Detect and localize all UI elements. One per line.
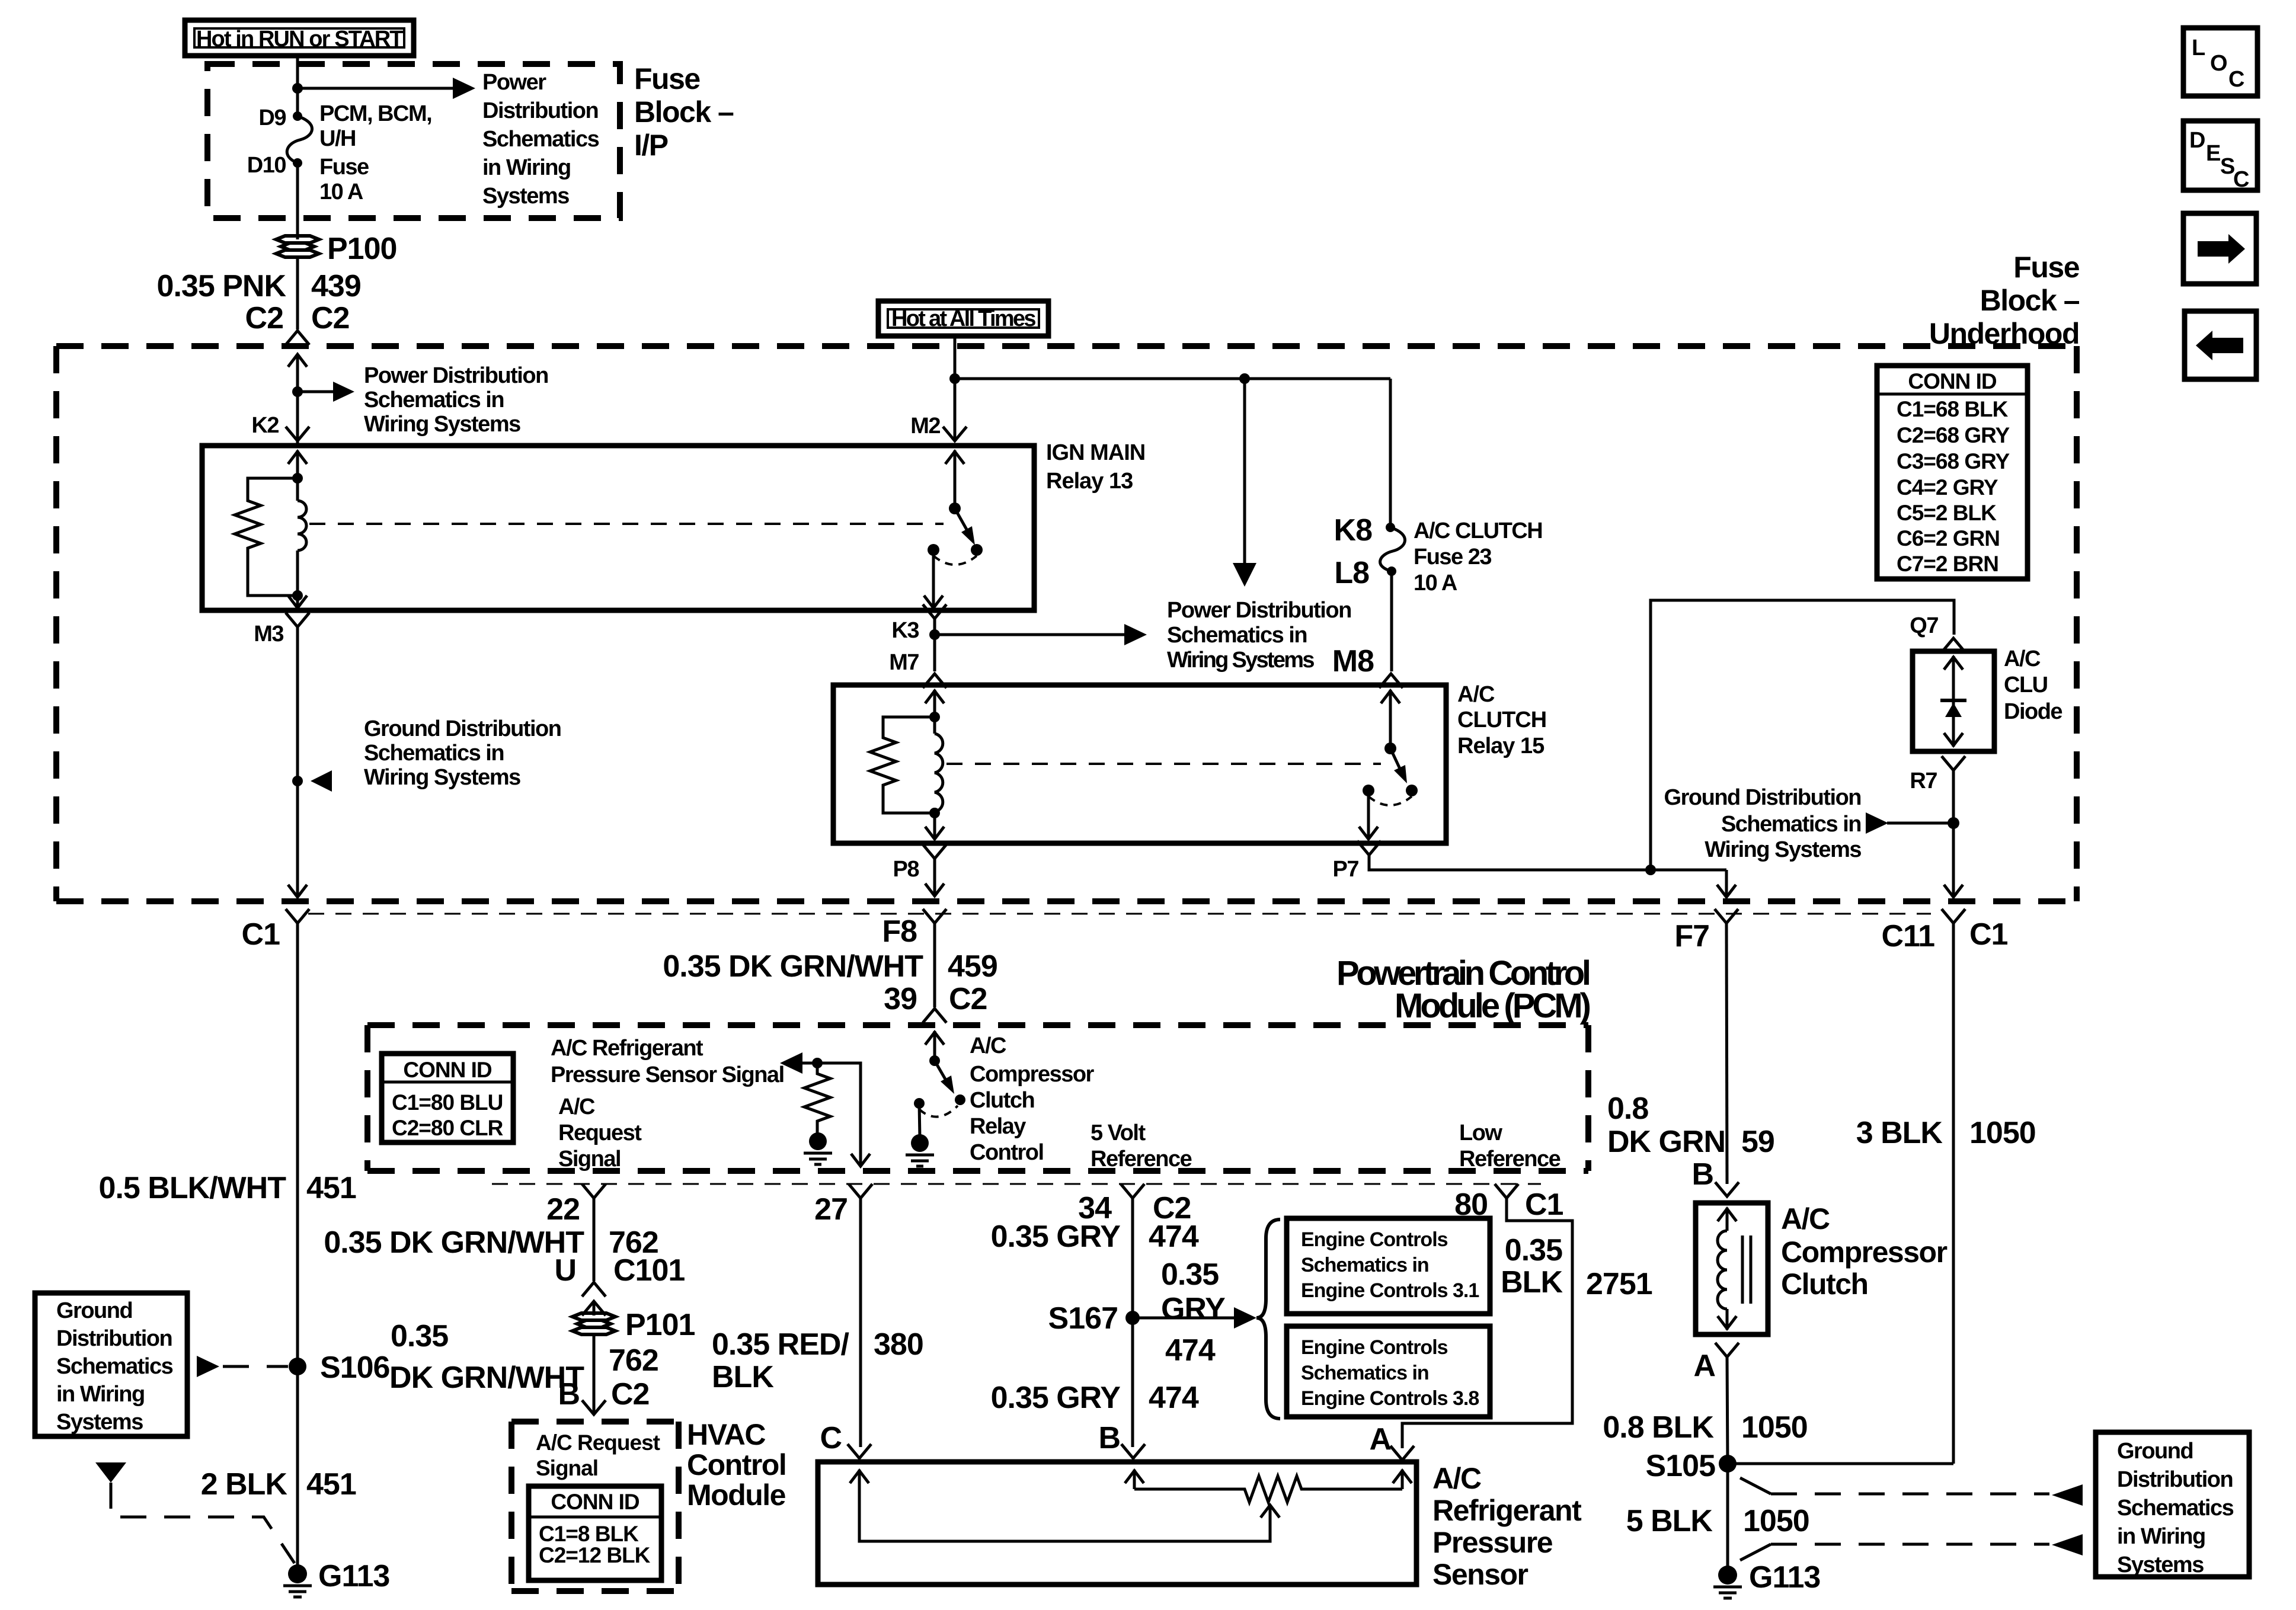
node junction on K2 wire: [292, 386, 303, 397]
CONN ID table underhood: [1877, 366, 2028, 579]
svg-text:U/H: U/H: [319, 126, 356, 151]
svg-text:451: 451: [306, 1467, 356, 1502]
relay 15 linkage dashed line: [946, 763, 1381, 765]
diode symbol with arrows: [1940, 656, 1966, 747]
node coil top junction: [292, 473, 303, 484]
svg-text:K3: K3: [891, 618, 919, 643]
labels C11 C1: [1881, 917, 2007, 953]
connector chevron pin 80: [1495, 1184, 1518, 1198]
component box A/C CLU Diode: [1913, 651, 1994, 751]
arrow down to pin 27: [851, 1154, 870, 1166]
svg-text:Wiring Systems: Wiring Systems: [1705, 837, 1861, 862]
CONN ID table PCM: [382, 1054, 513, 1142]
arrow down at C11 exit: [1944, 885, 1963, 897]
arrow to Power Distribution reference (K3): [935, 624, 1147, 645]
svg-text:474: 474: [1149, 1219, 1199, 1254]
relay 13 coil input arrow: [288, 450, 307, 478]
arrow to Power Distribution reference (underhood top): [298, 382, 354, 402]
connector chevron compressor B: [1715, 1182, 1739, 1196]
relay 13 switch output arrow to K3: [924, 550, 943, 608]
relay 15 switch pivot: [1384, 742, 1396, 754]
svg-text:C: C: [2233, 167, 2249, 192]
svg-text:BLK: BLK: [1501, 1265, 1563, 1299]
Hot at All Times header box: [878, 301, 1048, 336]
svg-text:B: B: [1098, 1421, 1120, 1455]
svg-text:Engine Controls 3.1: Engine Controls 3.1: [1301, 1279, 1479, 1302]
svg-text:A/C Request: A/C Request: [536, 1430, 660, 1455]
PCM switch pivot: [929, 1055, 940, 1066]
svg-text:D10: D10: [247, 153, 286, 178]
label 0.35 GRY 474 (lower): [991, 1381, 1199, 1415]
relay 13 switch input from M2: [945, 450, 964, 508]
svg-text:27: 27: [814, 1192, 848, 1227]
svg-text:0.35: 0.35: [391, 1319, 448, 1353]
label 0.35 DK GRN/WHT 762 (above C101): [324, 1225, 658, 1260]
wire K2 entry into underhood box: [296, 356, 299, 446]
label A/C Compressor Clutch Relay Control: [970, 1033, 1095, 1165]
svg-text:Ground: Ground: [56, 1298, 132, 1323]
svg-text:1050: 1050: [1743, 1504, 1809, 1538]
svg-text:451: 451: [306, 1171, 356, 1205]
svg-text:C7=2 BRN: C7=2 BRN: [1897, 552, 1998, 576]
fuse 23 terminal L8: [1387, 566, 1396, 576]
text A/C Request Signal (PCM): [558, 1094, 642, 1172]
dashed ground reference wire 2: [1740, 1534, 2083, 1560]
svg-text:C1: C1: [1969, 917, 2008, 952]
label Fuse Block Underhood: [1929, 251, 2080, 350]
label A/C CLUTCH Fuse 23 10 A: [1414, 518, 1542, 596]
svg-text:Ground: Ground: [2117, 1439, 2193, 1464]
svg-text:DK GRN/WHT: DK GRN/WHT: [389, 1361, 584, 1395]
svg-text:P8: P8: [893, 857, 919, 882]
wire S105 to C1 ground leg: [1728, 1462, 1953, 1465]
splice S167: [1125, 1311, 1140, 1325]
text Power Distribution Schematics in Wiring Systems (center): [1167, 598, 1351, 673]
svg-text:F7: F7: [1674, 919, 1709, 953]
fuse element PCM BCM U/H Fuse 10A: [287, 116, 312, 163]
node ground distribution tap on M3 wire: [292, 776, 303, 786]
text A/C Refrigerant Pressure Sensor Signal: [551, 1036, 784, 1087]
node branch to power distribution arrow: [1239, 373, 1250, 384]
arrow down at C1 exit: [288, 885, 307, 897]
svg-text:C2: C2: [611, 1377, 649, 1411]
text Low Reference: [1459, 1121, 1560, 1172]
text Power Distribution Schematics in Wiring Systems (I/P): [482, 70, 599, 209]
svg-text:Wiring Systems: Wiring Systems: [364, 412, 520, 437]
svg-text:Compressor: Compressor: [970, 1062, 1095, 1087]
node: junction dot in fuse block I/P: [292, 83, 303, 94]
label 39 C2: [884, 982, 987, 1016]
wire C1 left down to G113: [296, 923, 299, 1567]
svg-text:Engine Controls: Engine Controls: [1301, 1336, 1448, 1359]
svg-text:C2: C2: [245, 301, 283, 335]
arrow down at F7 exit: [1717, 870, 1736, 897]
wire up to diode feed: [1651, 600, 1954, 870]
connector chevron pin 22: [582, 1184, 606, 1198]
grommet P100: [276, 232, 396, 266]
connector chevron M3: [286, 613, 309, 627]
label 2 BLK 451: [201, 1467, 356, 1502]
svg-text:0.35 GRY: 0.35 GRY: [991, 1381, 1121, 1415]
sensor pin A arrow: [1393, 1470, 1412, 1489]
svg-text:GRY: GRY: [1161, 1292, 1225, 1326]
svg-text:E: E: [2206, 141, 2220, 166]
wire C101 to P101: [593, 1301, 596, 1315]
svg-text:F8: F8: [882, 914, 917, 949]
"Hot in RUN or START" header box: [185, 20, 414, 56]
connector chevron R7: [1942, 756, 1965, 770]
svg-text:Block –: Block –: [1980, 284, 2080, 317]
thin dashed connector line below PCM: [492, 1183, 1541, 1185]
arrow down P8 exit from relay 15: [923, 844, 946, 896]
relay 13 coil output arrow: [288, 596, 307, 608]
svg-text:Refrigerant: Refrigerant: [1432, 1494, 1582, 1527]
svg-text:474: 474: [1149, 1381, 1199, 1415]
connector chevron PCM 39 entry: [923, 1009, 946, 1023]
connector chevron compressor A: [1715, 1343, 1739, 1357]
resistor in relay 15 (parallel with coil): [870, 717, 935, 813]
ground G113 (right): [1713, 1560, 1820, 1598]
connector chevron Q7: [1942, 638, 1965, 652]
svg-text:0.35 PNK: 0.35 PNK: [157, 269, 287, 303]
connector chevron C1: [286, 909, 309, 923]
svg-text:380: 380: [874, 1327, 923, 1362]
svg-text:Schematics in: Schematics in: [1301, 1362, 1429, 1384]
svg-text:S167: S167: [1048, 1301, 1118, 1336]
svg-text:C11: C11: [1881, 919, 1934, 953]
svg-text:Relay: Relay: [970, 1114, 1026, 1139]
svg-text:Fuse 23: Fuse 23: [1414, 545, 1491, 569]
svg-text:Clutch: Clutch: [970, 1088, 1034, 1113]
wire pin 27 down to sensor C: [859, 1198, 862, 1447]
svg-text:D9: D9: [258, 105, 286, 130]
node ground distribution tap on diode wire: [1948, 817, 1959, 829]
svg-text:C2: C2: [949, 982, 987, 1016]
svg-text:Low: Low: [1459, 1121, 1502, 1145]
component box A/C Compressor Clutch: [1696, 1203, 1768, 1334]
svg-text:Underhood: Underhood: [1929, 317, 2079, 350]
node relay15 coil top junction: [929, 712, 940, 722]
svg-text:0.5 BLK/WHT: 0.5 BLK/WHT: [99, 1171, 287, 1205]
CONN ID table HVAC: [529, 1486, 661, 1580]
connector chevron sensor A: [1390, 1446, 1414, 1460]
wire M3 down to C1: [296, 627, 299, 896]
label 0.8 BLK 1050: [1603, 1410, 1807, 1445]
svg-text:C5=2 BLK: C5=2 BLK: [1897, 501, 1997, 525]
svg-text:Ground Distribution: Ground Distribution: [1664, 785, 1861, 810]
svg-text:G113: G113: [318, 1559, 389, 1593]
svg-text:2751: 2751: [1586, 1267, 1652, 1301]
svg-text:1050: 1050: [1969, 1116, 2036, 1150]
PCM switch travel arc: [919, 1106, 958, 1117]
node hot feed junction: [949, 373, 960, 384]
svg-text:C1: C1: [1525, 1188, 1563, 1222]
svg-text:R7: R7: [1910, 769, 1937, 793]
svg-text:A/C: A/C: [1781, 1202, 1830, 1235]
svg-text:A/C: A/C: [558, 1094, 595, 1119]
svg-text:Compressor: Compressor: [1781, 1235, 1948, 1269]
connector chevron C11/C1: [1942, 909, 1965, 923]
svg-text:CLUTCH: CLUTCH: [1457, 708, 1546, 732]
label 0.35 BLK 2751: [1501, 1233, 1652, 1301]
svg-text:Power Distribution: Power Distribution: [364, 363, 548, 388]
svg-text:D: D: [2189, 128, 2205, 153]
wire P101 down to HVAC: [593, 1334, 596, 1413]
svg-text:HVAC: HVAC: [687, 1418, 765, 1451]
wire L8 down to M8: [1390, 571, 1393, 671]
relay 13 switch pivot: [949, 502, 961, 514]
sensor potentiometer resistor: [1134, 1476, 1402, 1502]
right-arrow icon box: [2183, 213, 2256, 284]
svg-text:A/C: A/C: [970, 1033, 1006, 1058]
arrowhead to Ground Distribution reference (left): [311, 770, 332, 792]
svg-text:Relay 13: Relay 13: [1046, 469, 1133, 494]
svg-text:0.35 DK GRN/WHT: 0.35 DK GRN/WHT: [663, 949, 923, 984]
component box A/C Refrigerant Pressure Sensor: [818, 1462, 1416, 1585]
svg-text:C: C: [820, 1421, 842, 1455]
svg-text:Q7: Q7: [1910, 613, 1938, 638]
grommet P101: [573, 1308, 695, 1342]
text Ground Distribution Schematics in Wiring Systems (left mid): [364, 716, 561, 790]
text Power Distribution Schematics in Wiring Systems (underhood top): [364, 363, 548, 437]
relay 15 switch arm: [1390, 748, 1407, 783]
svg-text:Sensor: Sensor: [1432, 1558, 1528, 1591]
relay 15 switch input from M8: [1381, 690, 1400, 748]
svg-text:474: 474: [1165, 1333, 1216, 1368]
splice S106: [289, 1358, 306, 1375]
svg-text:Engine Controls 3.8: Engine Controls 3.8: [1301, 1387, 1479, 1410]
connector chevron K2: [286, 427, 309, 441]
svg-text:10 A: 10 A: [1414, 571, 1457, 596]
wire hot feed horizontal: [955, 377, 1390, 380]
connector C101 double chevron: [582, 1282, 606, 1315]
left-arrow icon box: [2185, 311, 2256, 379]
svg-text:Schematics: Schematics: [2117, 1496, 2234, 1521]
wire K3 to M7: [933, 619, 936, 671]
splice S105: [1719, 1455, 1737, 1473]
dashed ground reference from left box to G113: [95, 1462, 295, 1563]
svg-text:0.8 BLK: 0.8 BLK: [1603, 1410, 1714, 1445]
wire D10 down to P100: [296, 163, 299, 239]
svg-text:0.35: 0.35: [1161, 1257, 1219, 1292]
reference box Engine Controls 3.1: [1287, 1218, 1490, 1314]
svg-text:Power: Power: [482, 70, 546, 95]
reference box Ground Distribution (bottom right): [2096, 1432, 2249, 1577]
svg-text:Relay 15: Relay 15: [1457, 734, 1544, 758]
resistor to ground in PCM: [804, 1063, 830, 1133]
svg-text:in Wiring: in Wiring: [2117, 1524, 2205, 1549]
dashed ground reference wire 1: [1740, 1478, 2083, 1506]
svg-text:3 BLK: 3 BLK: [1856, 1116, 1943, 1150]
connector chevron sensor B: [1121, 1444, 1145, 1458]
brace for engine controls references: [1256, 1219, 1280, 1419]
arrow from S167 to engine controls references: [1133, 1307, 1256, 1329]
svg-text:P100: P100: [327, 232, 396, 266]
svg-text:A: A: [1693, 1349, 1715, 1383]
wire pin 22 down to C101: [593, 1198, 596, 1281]
svg-text:CONN ID: CONN ID: [1908, 369, 1997, 393]
fuse terminal D10: [293, 158, 302, 168]
text Ground Distribution Schematics in Wiring Systems (right mid): [1664, 785, 1862, 862]
label 3 BLK 1050: [1856, 1116, 2036, 1150]
connector chevron P7: [1357, 841, 1381, 855]
svg-text:Control: Control: [687, 1448, 786, 1481]
connector chevron pin 34: [1121, 1184, 1144, 1198]
connector chevron F8: [923, 909, 946, 923]
wire pin 34 down to sensor B: [1131, 1198, 1134, 1447]
relay 15 switch contacts: [1363, 785, 1374, 796]
reference box Ground Distribution (left): [35, 1293, 187, 1436]
wire R7 down to C11: [1952, 770, 1955, 895]
svg-text:Systems: Systems: [2117, 1553, 2204, 1577]
PCM relay control switch input arrow: [925, 1031, 944, 1061]
wire branch down to fuse 23: [1389, 379, 1392, 527]
svg-text:C1=68 BLK: C1=68 BLK: [1897, 397, 2009, 421]
svg-text:M3: M3: [254, 622, 283, 646]
svg-text:DK GRN: DK GRN: [1607, 1125, 1725, 1159]
svg-text:Distribution: Distribution: [2117, 1467, 2233, 1492]
relay 13 linkage dashed line: [309, 523, 944, 525]
svg-text:C1: C1: [242, 917, 280, 952]
fuse element A/C CLUTCH Fuse 23: [1380, 527, 1405, 571]
reference box Engine Controls 3.8: [1287, 1326, 1490, 1417]
svg-text:0.35 GRY: 0.35 GRY: [991, 1219, 1121, 1254]
svg-text:Request: Request: [558, 1121, 642, 1145]
connector chevron sensor C: [848, 1444, 871, 1458]
label 0.8 DK GRN 59: [1607, 1092, 1774, 1159]
svg-text:C3=68 GRY: C3=68 GRY: [1897, 449, 2010, 473]
svg-text:K2: K2: [251, 413, 279, 438]
wire Hot at All Times down to M2: [954, 336, 957, 440]
label 0.35 DK GRN/WHT 762 (below P101): [389, 1319, 658, 1395]
svg-text:A/C CLUTCH: A/C CLUTCH: [1414, 518, 1542, 543]
PCM dashed box: [367, 1025, 1588, 1171]
svg-text:B: B: [558, 1377, 580, 1411]
label IGN MAIN Relay 13: [1046, 440, 1145, 494]
sensor pin C arrow: [850, 1470, 869, 1489]
node coil bottom junction: [292, 590, 303, 601]
svg-text:S105: S105: [1646, 1449, 1716, 1483]
svg-text:Systems: Systems: [56, 1410, 143, 1435]
relay 13 switch travel arc: [933, 556, 977, 565]
svg-text:Reference: Reference: [1091, 1147, 1192, 1172]
svg-text:A/C Refrigerant: A/C Refrigerant: [551, 1036, 703, 1061]
ground in PCM (resistor): [804, 1132, 832, 1164]
svg-text:Block –: Block –: [634, 95, 734, 129]
svg-text:G113: G113: [1749, 1560, 1820, 1595]
svg-text:Reference: Reference: [1459, 1147, 1560, 1172]
svg-text:22: 22: [546, 1192, 580, 1227]
Fuse Block Underhood dashed box: [56, 346, 2077, 901]
connector chevron M2: [943, 427, 967, 441]
svg-text:C101: C101: [613, 1253, 685, 1288]
sensor wiper wire and arrow: [859, 1489, 1280, 1541]
svg-text:Distribution: Distribution: [482, 98, 598, 123]
svg-text:0.35: 0.35: [1505, 1233, 1562, 1267]
svg-text:M7: M7: [889, 650, 919, 675]
label 0.35 DK GRN/WHT 459: [663, 949, 997, 984]
label Powertrain Control Module (PCM): [1336, 954, 1590, 1025]
svg-text:Signal: Signal: [558, 1147, 621, 1172]
connector chevron pin 27: [849, 1184, 872, 1198]
wire F7 down to compressor clutch B: [1726, 923, 1727, 1184]
svg-text:K8: K8: [1334, 513, 1373, 548]
svg-text:CONN ID: CONN ID: [551, 1490, 639, 1514]
svg-text:U: U: [554, 1253, 576, 1288]
svg-text:10 A: 10 A: [319, 180, 363, 204]
svg-text:Schematics in: Schematics in: [1301, 1254, 1429, 1276]
svg-text:CONN ID: CONN ID: [403, 1058, 492, 1082]
svg-text:C4=2 GRY: C4=2 GRY: [1897, 475, 1998, 500]
svg-text:Schematics: Schematics: [56, 1354, 173, 1379]
PCM switch contact: [955, 1094, 965, 1105]
svg-text:C2=12 BLK: C2=12 BLK: [539, 1543, 651, 1567]
coil in relay 15: [935, 717, 943, 813]
svg-text:L8: L8: [1334, 556, 1369, 590]
PCM switch arm: [935, 1061, 954, 1094]
wire arrow to Power Distribution reference (I/P): [298, 78, 475, 99]
resistor in relay 13 (parallel with coil): [235, 478, 298, 596]
svg-text:39: 39: [884, 982, 917, 1016]
svg-text:Control: Control: [970, 1140, 1044, 1165]
svg-text:S106: S106: [320, 1350, 390, 1385]
wire compressor A down to S105: [1727, 1357, 1728, 1464]
sensor pin B arrow: [1125, 1470, 1144, 1489]
wire P100 down to C2 connector: [296, 257, 299, 329]
svg-text:Ground Distribution: Ground Distribution: [364, 716, 561, 741]
fuse terminal D9: [293, 111, 302, 121]
wire F8 down into PCM: [933, 923, 936, 1007]
svg-text:Wiring Systems: Wiring Systems: [364, 765, 520, 790]
svg-text:C2=80 CLR: C2=80 CLR: [392, 1116, 503, 1140]
svg-text:C6=2 GRN: C6=2 GRN: [1897, 526, 2000, 550]
svg-text:in Wiring: in Wiring: [56, 1382, 145, 1407]
svg-text:0.35 RED/: 0.35 RED/: [712, 1327, 849, 1362]
arrow from Ground Distribution box to S106: [197, 1356, 288, 1377]
svg-text:Module (PCM): Module (PCM): [1395, 987, 1590, 1025]
label 5 BLK 1050: [1626, 1504, 1809, 1538]
svg-text:A/C: A/C: [1457, 682, 1495, 707]
svg-text:Signal: Signal: [536, 1456, 598, 1480]
relay 13 switch contacts: [928, 544, 939, 556]
svg-text:C1=80 BLU: C1=80 BLU: [392, 1090, 503, 1115]
svg-text:A/C: A/C: [2004, 646, 2041, 671]
svg-text:BLK: BLK: [712, 1360, 774, 1394]
label Fuse Block - I/P: [634, 62, 734, 162]
svg-text:439: 439: [311, 269, 361, 303]
thin dashed connector line below underhood box: [308, 913, 1931, 915]
label A/C Refrigerant Pressure Sensor: [1432, 1462, 1582, 1591]
relay 13 switch arm: [955, 508, 975, 545]
svg-text:A: A: [1369, 1422, 1391, 1457]
svg-text:C: C: [2228, 67, 2244, 92]
svg-text:P7: P7: [1333, 857, 1359, 882]
arrow up at K2 entry: [288, 354, 307, 367]
svg-text:Clutch: Clutch: [1781, 1267, 1868, 1301]
wire from Hot in RUN box down to fuse D9: [296, 56, 299, 116]
wire P7 to F7 corner: [1369, 855, 1726, 870]
node relay15 coil bottom junction: [929, 808, 940, 818]
svg-text:Schematics in: Schematics in: [364, 741, 504, 766]
svg-text:PCM, BCM,: PCM, BCM,: [319, 101, 431, 126]
svg-text:Pressure: Pressure: [1432, 1526, 1553, 1559]
label HVAC Control Module: [687, 1418, 786, 1512]
DESC icon box: [2183, 121, 2257, 192]
connector chevron K3: [923, 604, 946, 619]
svg-text:0.8: 0.8: [1607, 1092, 1648, 1126]
wire 3 BLK 1050 from C1 down to S105: [1952, 923, 1955, 1464]
svg-text:762: 762: [609, 1343, 658, 1378]
